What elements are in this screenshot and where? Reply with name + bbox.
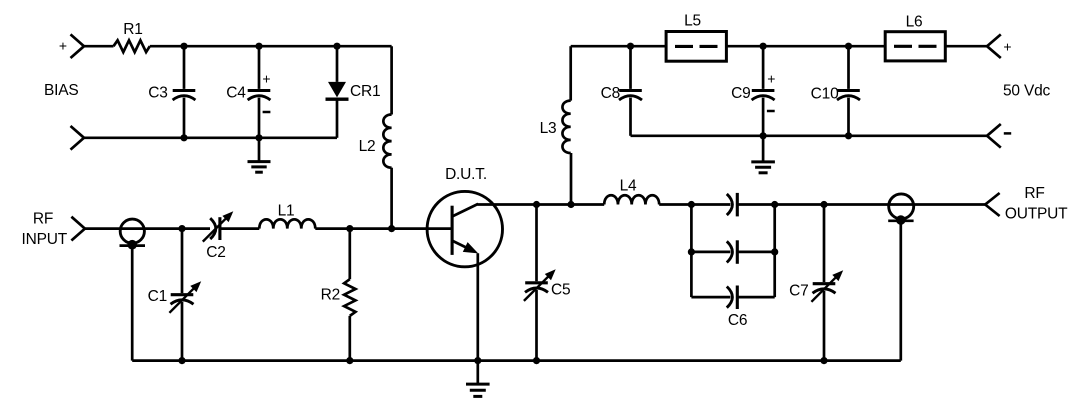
junction dot C6 right bus middle (771, 248, 778, 255)
capacitor C5 (variable) (524, 205, 556, 361)
ground (below emitter) (466, 361, 490, 397)
capacitor C1 (variable) (169, 229, 201, 361)
RF choke L5 (666, 32, 726, 62)
svg-text:L2: L2 (359, 138, 376, 155)
svg-text:+: + (59, 38, 67, 54)
wire C6 right bus (773, 205, 776, 298)
capacitor C8 (619, 46, 642, 136)
resistor R2 (344, 229, 355, 361)
capacitor C3 (173, 46, 196, 138)
wire bias+ to R1 (84, 45, 114, 48)
svg-text:C2: C2 (206, 244, 225, 261)
svg-text:L4: L4 (620, 178, 637, 195)
svg-text:C4: C4 (226, 85, 246, 102)
terminal -50V chevron (987, 124, 1001, 148)
resistor R1 (114, 40, 150, 52)
svg-text:D.U.T.: D.U.T. (445, 166, 487, 183)
junction dot R2 top (346, 225, 353, 232)
terminal +50V chevron (987, 34, 1001, 58)
svg-text:INPUT: INPUT (22, 231, 68, 248)
label - (C4 polarity) (263, 111, 271, 114)
junction dot L3 bottom node (567, 201, 574, 208)
junction dot C7 bottom (820, 357, 827, 364)
junction dot L2 bottom node (388, 225, 395, 232)
svg-text:50 Vdc: 50 Vdc (1003, 83, 1051, 100)
wire RF input to C2 (85, 227, 210, 230)
junction dot C7 top (820, 201, 827, 208)
svg-text:RF: RF (1024, 185, 1044, 202)
wire L4 to C6 (659, 203, 730, 206)
inductor L2 (383, 46, 391, 228)
capacitor C4 (polarized) (248, 46, 271, 138)
junction dot R2 bottom (346, 357, 353, 364)
svg-text:C9: C9 (731, 85, 750, 102)
svg-text:C10: C10 (811, 86, 839, 103)
junction dot C4 bottom (255, 134, 262, 141)
transistor Q1 D.U.T. (427, 191, 502, 360)
terminal RF INPUT chevron (71, 217, 85, 241)
svg-text:+: + (1003, 38, 1011, 54)
svg-text:L6: L6 (906, 14, 923, 31)
wire top supply rail (L3 corner to L5) (571, 45, 666, 48)
junction dot C3 bottom (180, 134, 187, 141)
connector J1 (input feedthrough) (120, 219, 146, 361)
capacitor C6b (middle parallel) (691, 240, 774, 263)
junction dot C10 top (845, 43, 852, 50)
wire supply bottom rail (631, 134, 988, 137)
svg-text:C8: C8 (601, 85, 620, 102)
svg-text:BIAS: BIAS (44, 82, 79, 99)
junction dot C10 bottom (845, 132, 852, 139)
svg-text:C6: C6 (728, 312, 747, 329)
svg-text:+: + (262, 71, 270, 87)
wire L1 to transistor base (315, 227, 452, 230)
junction dot emitter node (474, 357, 481, 364)
ground (below C9) (751, 136, 775, 173)
ground (below C4) (248, 138, 271, 172)
terminal BIAS + chevron (71, 34, 85, 58)
connector J2 (output feedthrough) (888, 194, 914, 361)
capacitor C6a (series, on output line) (727, 193, 738, 217)
junction dot C6 right bus top (771, 201, 778, 208)
svg-text:L1: L1 (278, 203, 295, 220)
junction dot C1 bottom (178, 357, 185, 364)
svg-text:C5: C5 (551, 282, 570, 299)
inductor L3 (562, 46, 571, 204)
junction dot C3 top (180, 43, 187, 50)
svg-text:L3: L3 (540, 120, 557, 137)
wire bias bottom rail (84, 136, 337, 139)
capacitor C9 (polarized) (752, 46, 775, 136)
capacitor C7 (variable) (811, 205, 843, 361)
junction dot C6 left bus top (688, 201, 695, 208)
wire C2 to L1 (220, 227, 259, 230)
junction dot C5 top (533, 201, 540, 208)
svg-text:+: + (767, 71, 775, 87)
junction dot C8 top (627, 43, 634, 50)
capacitor C10 (837, 46, 860, 136)
junction dot C9 bottom (760, 132, 767, 139)
junction dot C9 top (760, 43, 767, 50)
wire collector to L4 (477, 203, 604, 206)
wire bottom ground rail (132, 359, 901, 362)
label - (C9 polarity) (767, 110, 775, 113)
capacitor C6c (bottom parallel) (691, 286, 774, 310)
wire C6 to output connector (738, 203, 985, 206)
wire C6 left bus (690, 205, 693, 298)
svg-text:C7: C7 (789, 283, 808, 300)
svg-text:OUTPUT: OUTPUT (1005, 206, 1068, 223)
inductor L4 (604, 195, 659, 204)
wire L6 to +50V terminal (945, 45, 987, 48)
svg-text:R2: R2 (321, 287, 340, 304)
junction dot C6 left bus middle (688, 248, 695, 255)
svg-text:CR1: CR1 (350, 83, 380, 100)
terminal RF OUTPUT chevron (985, 193, 999, 216)
label RF INPUT (22, 211, 68, 249)
svg-text:R1: R1 (123, 21, 142, 38)
svg-text:C1: C1 (148, 288, 167, 305)
svg-text:RF: RF (33, 211, 53, 228)
RF choke L6 (885, 32, 945, 61)
capacitor C2 (variable, series) (203, 211, 234, 241)
junction dot C1 top (178, 225, 185, 232)
junction dot CR1 top (333, 43, 340, 50)
label RF OUTPUT (1005, 185, 1068, 223)
junction dot C5 bottom (533, 357, 540, 364)
label - (supply) (1004, 132, 1011, 135)
terminal BIAS - chevron (71, 126, 85, 150)
inductor L1 (259, 219, 315, 228)
svg-text:C3: C3 (148, 85, 167, 102)
diode CR1 (326, 46, 349, 138)
svg-text:L5: L5 (684, 13, 701, 30)
junction dot C4 top (255, 43, 262, 50)
wire L5 to L6 (726, 45, 885, 48)
wire R1 to L2 corner (top bias rail) (150, 45, 392, 48)
